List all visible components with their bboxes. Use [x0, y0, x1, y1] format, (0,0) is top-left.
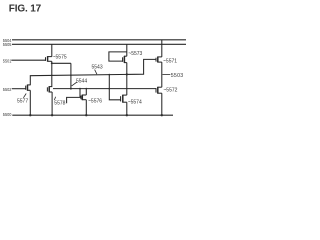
transistor 5573: [123, 44, 127, 74]
transistor 5575: [46, 44, 52, 61]
leader 5544: [72, 82, 77, 86]
junction 5500 5576 source: [85, 114, 87, 116]
svg-text:5501: 5501: [3, 58, 12, 63]
wire node A to 5574 drain: [126, 74, 128, 95]
wire 5500 bottom supply line: [12, 114, 173, 116]
wire 5505 bus line: [12, 43, 186, 45]
svg-text:5502: 5502: [3, 87, 12, 92]
svg-text:~5573: ~5573: [128, 51, 142, 57]
svg-text:~5572: ~5572: [163, 87, 177, 93]
transistor 5572: [156, 87, 162, 115]
svg-text:FIG. 17: FIG. 17: [9, 3, 42, 14]
svg-text:~5574: ~5574: [128, 100, 142, 106]
wire node B vertical drop: [70, 63, 72, 88]
node junction dot A3: [108, 74, 110, 76]
svg-text:~5575: ~5575: [53, 54, 67, 60]
leader 5578: [54, 97, 55, 100]
junction 5500 5574 source: [126, 114, 128, 116]
junction 5500 5577 source: [29, 114, 31, 116]
transistor 5578: [47, 86, 52, 115]
wire W1 horizontal: [52, 62, 71, 64]
node crossing dot A2: [70, 74, 72, 76]
wire 5502 signal line: [12, 88, 26, 90]
transistor 5576: [81, 89, 86, 116]
junction node B 5576 gate riser: [79, 88, 81, 90]
svg-text:~5576: ~5576: [88, 98, 102, 104]
svg-text:5544: 5544: [76, 78, 87, 84]
wire gate 5574 riser: [109, 75, 120, 100]
junction node B 5576 drain: [85, 88, 87, 90]
wire gate 5576 with stub: [67, 97, 81, 103]
transistor 5574: [121, 95, 127, 115]
svg-text:5577: 5577: [17, 99, 28, 105]
wire gate loop 5573: [109, 52, 127, 61]
svg-text:5500: 5500: [3, 112, 12, 117]
junction node B x drop: [70, 88, 72, 90]
svg-text:5503: 5503: [171, 73, 184, 79]
svg-text:~5571: ~5571: [163, 58, 177, 64]
node W1 junction: [51, 62, 53, 64]
svg-text:5578: 5578: [54, 100, 65, 106]
junction node B 5574 riser: [108, 88, 110, 90]
wire node B from 5575 source: [51, 61, 53, 87]
wire riser 5576 gate to node B: [79, 89, 81, 98]
wire node A line 5543: [30, 59, 156, 85]
transistor 5571: [156, 40, 162, 63]
junction 5500 5572 source: [161, 114, 163, 116]
svg-text:5543: 5543: [92, 65, 103, 71]
node crossing dot A1: [51, 75, 53, 77]
leader 5577: [23, 94, 26, 98]
leader 5543: [95, 70, 97, 75]
node A junction dot: [126, 73, 128, 75]
transistor 5577: [26, 85, 31, 116]
wire output node 5503: [161, 62, 163, 87]
svg-text:5505: 5505: [3, 42, 12, 47]
wire node B long line 5544: [53, 88, 156, 90]
junction 5500 5578 source: [51, 114, 53, 116]
leader 5503: [163, 73, 171, 75]
wire 5501 signal line: [11, 59, 45, 61]
wire 5504 bus line: [12, 39, 186, 41]
